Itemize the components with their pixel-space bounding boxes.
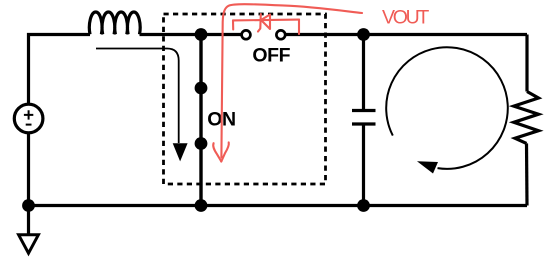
- node ON switch lower terminal: [195, 137, 208, 150]
- capacitor C1 wire upper: [362, 35, 365, 110]
- switch OFF terminal left: [242, 30, 251, 39]
- node ground junction: [22, 199, 35, 212]
- svg-text:VOUT: VOUT: [382, 6, 429, 28]
- voltage source V1: [14, 104, 43, 133]
- ON switch vertical wire: [199, 35, 202, 206]
- wire top right (switch to top-right corner): [286, 33, 527, 36]
- voltage source plus sign: [24, 110, 33, 119]
- VOUT pointer freehand line: [221, 4, 362, 157]
- wire right vertical lower: [525, 143, 529, 205]
- dashed box (switch block): [164, 14, 326, 184]
- wire bottom: [29, 204, 528, 207]
- diode bypass right lead: [298, 20, 300, 34]
- svg-text:OFF: OFF: [252, 44, 290, 66]
- resistor R1: [514, 92, 539, 144]
- voltage source minus sign: [26, 124, 32, 126]
- capacitor C1: [352, 111, 376, 125]
- ground: [19, 235, 39, 253]
- wire ground stem: [27, 206, 30, 235]
- inductor L1: [89, 12, 140, 34]
- wire right vertical upper: [525, 35, 528, 92]
- node bottom of ON switch: [195, 199, 208, 212]
- diode D1 cathode bar: [258, 14, 261, 32]
- switch OFF terminal right: [276, 30, 285, 39]
- wire top-left segment: [29, 35, 91, 104]
- node capacitor bottom: [357, 199, 370, 212]
- diode bypass left lead: [232, 20, 234, 29]
- node top of ON switch: [195, 28, 208, 41]
- current path arrow (ON state): [96, 49, 179, 144]
- capacitor C1 wire lower: [362, 126, 365, 206]
- current loop arrow: [386, 47, 508, 169]
- wire left vertical lower: [27, 134, 30, 206]
- red annotation group: [213, 4, 362, 161]
- VOUT arrowhead: [213, 143, 221, 161]
- node capacitor top: [357, 28, 370, 41]
- node ON switch upper terminal: [195, 82, 208, 95]
- diode D1 triangle: [261, 15, 270, 30]
- diode bypass top wire: [233, 19, 299, 22]
- wire top middle (inductor to OFF switch): [140, 33, 242, 36]
